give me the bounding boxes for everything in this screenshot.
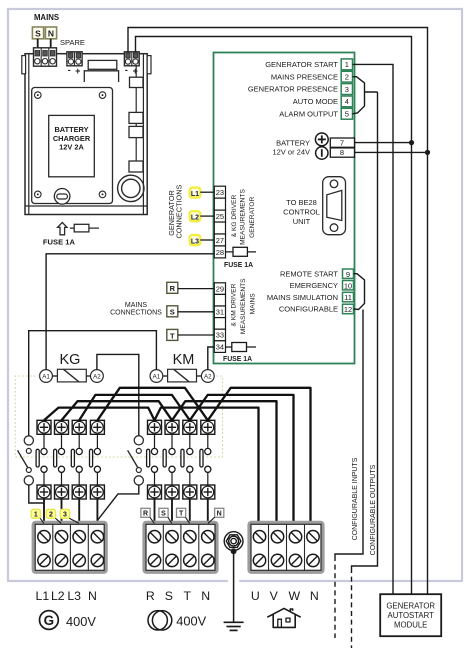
mains transformer symbol	[148, 611, 172, 630]
terminal 2	[341, 71, 352, 82]
charger battery output terminal block	[124, 52, 139, 66]
charger mains input terminal block	[34, 48, 57, 66]
wire KG coil A2 to KM auxiliary contact	[97, 354, 139, 435]
svg-text:28: 28	[216, 248, 224, 257]
svg-text:+: +	[75, 66, 80, 76]
svg-text:A1: A1	[153, 374, 161, 381]
wire R to terminal 29	[178, 288, 215, 290]
svg-text:1: 1	[345, 60, 349, 69]
leader N	[208, 517, 215, 523]
svg-text:S: S	[170, 308, 175, 317]
svg-text:REMOTE START: REMOTE START	[280, 270, 338, 279]
charger left mounting tab	[22, 56, 26, 74]
node L3 generator phase tag	[190, 235, 201, 245]
junction battery negative	[425, 150, 430, 155]
wire bundle terminals 2-5 alarm outputs	[353, 77, 378, 114]
wire T to terminal 33	[178, 334, 215, 336]
wire charger minus to battery negative bus	[128, 28, 428, 153]
terminal 8	[330, 148, 354, 157]
svg-text:S: S	[35, 29, 41, 39]
KM main contact pole 2	[163, 420, 179, 499]
svg-text:L2: L2	[51, 589, 65, 603]
label MAINS MEASUREMENTS & KM DRIVER (vertical)	[231, 278, 257, 334]
terminal 7	[330, 138, 354, 147]
junction earth	[231, 548, 237, 554]
wire KM aux to generator neutral column	[97, 485, 138, 524]
KG main contact pole 2	[54, 420, 69, 499]
wire KG pole4 to generator block	[96, 499, 98, 524]
fuse 1A on terminal 28	[226, 247, 257, 256]
charger transformer box	[49, 115, 95, 176]
wire terminal 1 to generator start line	[353, 64, 394, 594]
svg-text:L1: L1	[36, 589, 50, 603]
node L2 generator phase tag	[190, 211, 201, 221]
svg-text:W: W	[288, 589, 300, 603]
charger spare output terminal block	[67, 52, 82, 66]
svg-text:12V or 24V: 12V or 24V	[272, 148, 310, 157]
wire terminal 7 to positive bus	[355, 142, 412, 144]
svg-text:S: S	[165, 589, 173, 603]
wire KG pole2 to generator block	[61, 499, 63, 524]
wire load bus V (KG pole2 / KM pole2)	[62, 401, 277, 523]
charger carrying handle	[84, 60, 118, 82]
KM main contact pole 3	[181, 420, 197, 499]
svg-text:AUTOSTART: AUTOSTART	[388, 611, 435, 620]
terminal 3	[341, 84, 352, 95]
KG main contact pole 1	[36, 420, 51, 499]
svg-text:12: 12	[344, 305, 352, 314]
svg-text:T: T	[170, 331, 175, 340]
node S (mains phase)	[32, 27, 43, 39]
earth bolt terminal	[224, 532, 243, 551]
junction battery positive	[409, 140, 414, 145]
svg-text:CONNECTIONS: CONNECTIONS	[110, 310, 162, 317]
svg-text:FUSE 1A: FUSE 1A	[224, 262, 253, 269]
svg-text:400V: 400V	[176, 613, 206, 628]
label BATTERY CHARGER 12V 2A	[53, 125, 91, 151]
svg-text:MAINS PRESENCE: MAINS PRESENCE	[271, 72, 338, 81]
svg-text:2: 2	[345, 73, 349, 82]
panel screw top-right	[99, 92, 106, 99]
node T mains tag	[177, 508, 186, 517]
wire KG pole1 to generator block	[43, 499, 45, 524]
node 3 generator phase tag	[60, 509, 69, 518]
svg-text:N: N	[88, 589, 97, 603]
wire bundle terminals 9-12 configurable inputs	[354, 274, 365, 310]
mains measurement terminal strip 29-34	[214, 283, 225, 353]
label R S T N	[146, 589, 210, 603]
svg-text:3: 3	[345, 85, 349, 94]
svg-text:8: 8	[340, 148, 344, 157]
svg-text:31: 31	[216, 308, 224, 317]
node L1 generator phase tag	[190, 188, 201, 198]
wire load bus W (KG pole3 / KM pole3)	[79, 395, 293, 524]
KG main contact pole 4	[90, 420, 105, 499]
node S mains tag	[159, 508, 168, 517]
charger right mounting tab	[147, 56, 151, 74]
svg-text:MAINS SIMULATION: MAINS SIMULATION	[267, 293, 338, 302]
svg-text:CONFIGURABLE: CONFIGURABLE	[279, 305, 338, 314]
wire terminal 34 to KM coil A2	[208, 347, 215, 370]
contactor coil KM	[150, 369, 214, 382]
svg-text:5: 5	[345, 110, 349, 119]
wire S to charger input	[37, 39, 39, 52]
node T mains phase tag	[167, 329, 178, 340]
svg-text:N: N	[201, 589, 210, 603]
svg-text:23: 23	[216, 188, 224, 197]
KG auxiliary interlock contact	[18, 436, 34, 485]
battery plus terminal symbol	[315, 133, 328, 146]
leader S	[168, 517, 172, 523]
battery charger unit outline	[25, 54, 147, 215]
wire KM pole2 to mains block	[171, 499, 173, 524]
terminal 9	[343, 269, 354, 279]
svg-text:V: V	[270, 589, 279, 603]
wire terminal 8 to negative bus	[355, 151, 428, 153]
load terminal block	[249, 522, 323, 572]
svg-text:T: T	[183, 589, 191, 603]
svg-text:27: 27	[216, 236, 224, 245]
svg-text:L3: L3	[191, 239, 199, 246]
label U V W N	[251, 589, 319, 603]
KM main contact pole 4	[200, 420, 215, 499]
wire KG aux to generator pole 1	[29, 485, 44, 503]
svg-text:R: R	[170, 284, 176, 293]
terminal 11	[343, 292, 354, 302]
wire positive bus down to module	[411, 143, 413, 594]
wire L1 to terminal 23	[200, 191, 214, 193]
svg-text:CONFIGURABLE INPUTS: CONFIGURABLE INPUTS	[352, 457, 359, 540]
DB9 connector J1	[323, 177, 346, 235]
svg-text:33: 33	[216, 331, 224, 340]
svg-text:CONNECTIONS: CONNECTIONS	[174, 185, 183, 239]
svg-text:10: 10	[344, 281, 352, 290]
fuse 1A on terminal 34	[226, 343, 257, 352]
KM auxiliary interlock contact	[128, 436, 144, 485]
svg-text:29: 29	[216, 284, 224, 293]
contactor coil KG	[40, 369, 104, 382]
battery minus terminal symbol	[316, 147, 328, 159]
ground symbol	[224, 622, 244, 630]
svg-text:7: 7	[340, 138, 344, 147]
svg-text:TO BE28: TO BE28	[286, 198, 317, 207]
wire earth bolt to ground	[233, 551, 235, 621]
node N (mains neutral)	[45, 27, 56, 39]
dashed configurable inputs line	[334, 556, 336, 638]
node R mains phase tag	[167, 282, 178, 293]
svg-text:KG: KG	[60, 352, 81, 368]
svg-text:U: U	[251, 589, 260, 603]
svg-text:11: 11	[344, 293, 352, 302]
svg-text:R: R	[146, 589, 155, 603]
svg-text:N: N	[48, 29, 54, 39]
KM main contact pole 1	[147, 420, 162, 499]
terminal 1	[341, 59, 352, 70]
leader R	[150, 517, 154, 523]
svg-text:12V 2A: 12V 2A	[59, 142, 84, 151]
leader 1	[40, 518, 44, 523]
svg-text:S: S	[161, 511, 166, 518]
svg-text:L2: L2	[191, 215, 199, 222]
svg-text:+: +	[133, 66, 138, 76]
svg-text:A1: A1	[42, 374, 50, 381]
wire terminal 28 to KG coil A1	[46, 254, 214, 370]
BE28 control unit box U1	[214, 53, 355, 364]
leader 2	[55, 518, 61, 523]
svg-text:GENERATOR: GENERATOR	[249, 196, 256, 237]
svg-text:GENERATOR START: GENERATOR START	[265, 60, 338, 69]
svg-text:EMERGENCY: EMERGENCY	[290, 281, 338, 290]
svg-text:MAINS: MAINS	[250, 293, 257, 314]
generator autostart module	[380, 594, 441, 636]
svg-text:MAINS: MAINS	[34, 13, 59, 22]
svg-text:MEASUREMENTS: MEASUREMENTS	[240, 189, 247, 245]
svg-text:A2: A2	[93, 374, 101, 381]
svg-text:-: -	[68, 65, 71, 75]
charger inner panel	[32, 88, 113, 204]
charger indicator lamp	[54, 189, 70, 205]
wire N to charger input	[50, 39, 52, 52]
svg-text:2: 2	[49, 512, 53, 519]
wire S to terminal 31	[178, 311, 215, 313]
mechanical linkage dashed box KG/KM contactors	[15, 376, 222, 457]
label TO BE28 CONTROL UNIT	[283, 198, 320, 226]
svg-text:ALARM OUTPUT: ALARM OUTPUT	[279, 109, 338, 118]
wire configurable inputs line	[335, 310, 363, 557]
label GENERATOR CONNECTIONS (vertical)	[167, 185, 184, 239]
label L1 L2 L3 N	[36, 589, 97, 603]
svg-text:L1: L1	[191, 191, 199, 198]
svg-text:CONFIGURABLE OUTPUTS: CONFIGURABLE OUTPUTS	[370, 464, 377, 555]
wire KM coil A1 to KG auxiliary contact	[29, 331, 157, 436]
node 1 generator phase tag	[31, 509, 40, 518]
fuse F1 symbol	[58, 222, 99, 234]
charger fuse holder chain	[129, 66, 143, 172]
svg-text:FUSE 1A: FUSE 1A	[43, 237, 76, 246]
svg-text:N: N	[217, 511, 222, 518]
svg-text:4: 4	[345, 97, 349, 106]
label MAINS CONNECTIONS	[110, 302, 162, 317]
panel screw bottom-right	[99, 191, 106, 198]
svg-text:-: -	[125, 65, 128, 75]
terminal 12	[343, 304, 354, 314]
wire KM pole4 to mains block	[207, 499, 209, 524]
panel screw bottom-left	[35, 191, 42, 198]
generator measurement terminal strip 23-28	[214, 186, 225, 258]
node S mains phase tag	[167, 306, 178, 317]
svg-text:N: N	[310, 589, 319, 603]
svg-text:25: 25	[216, 212, 224, 221]
label GENERATOR MEASUREMENTS & KG DRIVER (vertical)	[231, 189, 256, 245]
svg-text:GENERATOR PRESENCE: GENERATOR PRESENCE	[248, 85, 338, 94]
svg-text:L3: L3	[67, 589, 81, 603]
svg-text:UNIT: UNIT	[293, 217, 311, 226]
terminal 10	[343, 281, 354, 291]
svg-text:CONTROL: CONTROL	[283, 207, 320, 216]
leader 3	[69, 518, 79, 523]
terminal 4	[341, 96, 352, 107]
svg-text:& KM DRIVER: & KM DRIVER	[231, 283, 238, 326]
svg-text:AUTO MODE: AUTO MODE	[293, 97, 338, 106]
svg-text:34: 34	[216, 342, 224, 351]
svg-text:MEASUREMENTS: MEASUREMENTS	[240, 278, 247, 334]
node N mains tag	[215, 508, 224, 517]
svg-text:MODULE: MODULE	[394, 621, 427, 630]
svg-text:FUSE 1A: FUSE 1A	[223, 356, 252, 363]
wire negative bus down to module	[427, 152, 429, 594]
KG main contact pole 3	[71, 420, 86, 499]
wire L2 to terminal 25	[200, 215, 214, 217]
dashed configurable outputs line	[351, 568, 353, 648]
wire KM pole3 to mains block	[189, 499, 191, 524]
wire L3 to terminal 27	[200, 239, 214, 241]
svg-text:KM: KM	[173, 352, 195, 368]
wire charger plus to battery positive bus	[136, 37, 412, 143]
gap in frame for earth wire	[228, 579, 239, 584]
svg-text:T: T	[179, 511, 184, 518]
terminal 5	[341, 108, 352, 119]
wire KM pole1 to mains block	[154, 499, 156, 524]
svg-text:& KG DRIVER: & KG DRIVER	[231, 195, 238, 238]
wire load bus U (KG pole1 / KM pole1)	[44, 408, 259, 524]
svg-text:SPARE: SPARE	[60, 38, 85, 47]
wire configurable outputs line	[352, 92, 378, 568]
svg-text:1: 1	[34, 512, 38, 519]
svg-text:A2: A2	[204, 374, 212, 381]
node R mains tag	[141, 508, 150, 517]
svg-text:G: G	[44, 613, 55, 628]
svg-text:400V: 400V	[66, 614, 96, 629]
leader T	[186, 517, 190, 523]
mains terminal block	[144, 522, 217, 572]
wire KG pole3 to generator block	[78, 499, 80, 524]
node 2 generator phase tag	[46, 509, 55, 518]
svg-text:R: R	[143, 511, 148, 518]
svg-text:BATTERY: BATTERY	[276, 138, 310, 147]
svg-text:3: 3	[63, 512, 67, 519]
svg-text:9: 9	[346, 270, 350, 279]
house load icon	[267, 608, 300, 627]
panel screw top-left	[35, 92, 42, 99]
svg-text:MAINS: MAINS	[125, 302, 148, 309]
wire load bus N (KG pole4 / KM pole4)	[97, 388, 310, 524]
generator symbol G	[40, 611, 59, 630]
svg-text:GENERATOR: GENERATOR	[386, 601, 435, 610]
charger output connector circle	[118, 175, 144, 201]
generator terminal block	[33, 522, 106, 572]
